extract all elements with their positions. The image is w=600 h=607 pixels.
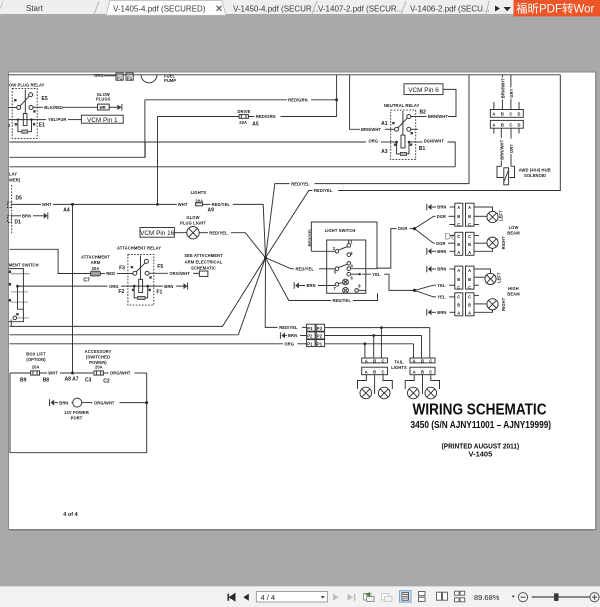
toolbar prev page button [243, 594, 249, 601]
svg-text:C: C [468, 285, 471, 290]
svg-text:(OPTION): (OPTION) [26, 357, 46, 362]
svg-text:RED/GRN: RED/GRN [256, 114, 276, 119]
svg-text:SEE ATTACHMENT: SEE ATTACHMENT [184, 253, 223, 258]
svg-text:HIGH: HIGH [508, 286, 519, 291]
switch pin 2 circle [335, 250, 339, 254]
switch pin 3 circle [347, 253, 351, 257]
P connector col1 P3 [307, 324, 316, 331]
ORG long bus to P1 [10, 343, 284, 345]
lamp high beam left [485, 273, 496, 284]
RED/GRN horizontal to junction [145, 99, 287, 101]
svg-text:BRN: BRN [307, 283, 316, 288]
wire loop to pin 2 [311, 250, 335, 252]
P connector col2 P2 [316, 332, 324, 339]
wire relay NO to ORG/WHT ref box [149, 272, 168, 274]
lamp wire B [474, 303, 487, 305]
relay center post [140, 256, 142, 280]
neutral relay contact top [407, 115, 411, 119]
tail lamp left 2 [378, 387, 390, 399]
svg-text:DGN/WHT: DGN/WHT [424, 139, 445, 144]
svg-text:P3: P3 [307, 326, 313, 331]
svg-text:4 / 4: 4 / 4 [261, 593, 276, 602]
svg-text:C: C [468, 295, 471, 300]
wire P1 right [325, 343, 414, 345]
svg-text:4 of 4: 4 of 4 [63, 512, 78, 518]
tail lamp right 1 [408, 387, 420, 399]
relay contact top circle [144, 259, 148, 263]
switch internal vertical with junction dot [16, 285, 19, 288]
lamp low beam left [487, 211, 498, 222]
col1 C stub left [450, 224, 455, 226]
switch pin stub row 3 [11, 301, 28, 303]
switch lamp circle lower [343, 288, 349, 294]
wire ORG bus to neutral relay coil [10, 141, 367, 143]
svg-text:ORG: ORG [94, 73, 104, 78]
svg-text:BRN/WHT: BRN/WHT [361, 127, 381, 132]
relay pin square 87 [411, 132, 413, 134]
wire hook from bottom contact down to bus L1 [10, 320, 12, 327]
DRIVE fuse [239, 115, 248, 119]
svg-text:WHT: WHT [178, 202, 188, 207]
coil suppression loop [134, 286, 148, 298]
svg-text:BRN: BRN [437, 267, 446, 272]
svg-text:A4: A4 [63, 208, 70, 214]
svg-text:BOX LIFT: BOX LIFT [26, 352, 46, 357]
svg-text:C: C [457, 285, 460, 290]
VCM Pin 16 box [140, 228, 174, 238]
tab bar background [0, 0, 600, 15]
svg-text:D1: D1 [15, 220, 22, 226]
svg-text:C: C [381, 358, 384, 363]
svg-text:YEL: YEL [437, 295, 446, 300]
wire BRN with arrow (D1) [11, 215, 21, 217]
view mode: single page (selected) [400, 591, 412, 603]
svg-text:WHT: WHT [48, 371, 58, 376]
tail light connector right row2 [410, 367, 435, 375]
svg-text:LAY: LAY [9, 172, 17, 177]
svg-text:F2: F2 [118, 289, 124, 295]
cut connector at page edge lower [8, 216, 12, 223]
wire long bus L1 to junction [10, 258, 266, 327]
svg-text:P2: P2 [307, 334, 313, 339]
svg-text:SCHEMATIC: SCHEMATIC [191, 266, 216, 271]
svg-text:P1: P1 [127, 76, 133, 81]
wire to fan junction diagonal [231, 233, 266, 258]
wire to corner then down to fan junction [233, 204, 266, 257]
tail light connector right row1 [410, 358, 435, 363]
svg-text:F1: F1 [156, 290, 162, 296]
vertical BRN/WHT feed from top bus to neutral relay [350, 75, 360, 130]
wire fuse to RED/YEL [203, 203, 211, 205]
zoom in button [590, 593, 599, 602]
svg-text:V-1450-4.pdf (SECUR...: V-1450-4.pdf (SECUR... [233, 5, 318, 14]
svg-text:A9: A9 [208, 208, 215, 214]
connector P1 second (cut) [126, 73, 133, 80]
tab scroll arrows [495, 6, 500, 12]
DGR diagonal to low beam left B [415, 216, 436, 228]
wire long lower bus [10, 166, 456, 168]
svg-text:PLUG LIGHT: PLUG LIGHT [180, 220, 206, 225]
svg-text:GLOW: GLOW [186, 215, 199, 220]
svg-text:ORG: ORG [109, 284, 119, 289]
svg-text:LEFT: LEFT [498, 210, 503, 221]
relay arm [136, 263, 145, 272]
coil junction dots [133, 285, 136, 288]
relay center post [402, 111, 404, 135]
VCM Pin 1 box [81, 115, 123, 123]
arm 7 to lamps [339, 283, 343, 284]
stub from NO contact [411, 128, 418, 130]
svg-text:PLUGS: PLUGS [96, 97, 111, 102]
svg-text:RED/YEL: RED/YEL [308, 228, 313, 247]
ground arrow BRN to P2 [281, 333, 285, 339]
wire RED/YEL upper no.1: diagonal from junction, label, to vertical at 469 up to bus [266, 184, 290, 258]
left lamps staple C [383, 375, 392, 389]
svg-text:ORG/WHT: ORG/WHT [169, 271, 190, 276]
ground arrow BRN low-beam-right A [428, 248, 432, 254]
junction dot A4 [71, 203, 74, 206]
svg-text:P3: P3 [317, 326, 323, 331]
svg-text:BRN/WHT: BRN/WHT [428, 114, 448, 119]
svg-text:A: A [457, 205, 460, 210]
svg-text:DGR: DGR [436, 241, 445, 246]
P connector col2 P3 [316, 324, 324, 331]
svg-text:A5: A5 [252, 122, 259, 128]
svg-text:OW PLUG RELAY: OW PLUG RELAY [9, 83, 45, 88]
svg-text:PORT: PORT [71, 415, 83, 420]
tab: V-1405-4.pdf (SECURED) active [106, 1, 226, 16]
svg-text:A1: A1 [381, 121, 388, 127]
svg-text:V-1406-2.pdf (SECU...: V-1406-2.pdf (SECU... [410, 5, 490, 14]
switch pin 8 circle [355, 289, 359, 293]
relay pin 30 square [33, 123, 35, 125]
AWD wire B down [500, 128, 502, 138]
svg-text:LIGHTS: LIGHTS [191, 190, 207, 195]
svg-text:A: A [413, 369, 416, 374]
switch bottom contact stub [17, 317, 29, 319]
lamp wire C stub [474, 284, 479, 286]
svg-text:A: A [468, 311, 471, 316]
ground arrow BRN low-beam-left A [428, 204, 432, 210]
relay center post [24, 90, 26, 114]
tab close x [217, 6, 222, 11]
svg-text:A: A [365, 358, 368, 363]
solenoid plunger [504, 168, 509, 185]
switch pin 4 circle [347, 267, 351, 271]
arrow glow symbol D1 [44, 213, 48, 219]
svg-text:DGR: DGR [437, 214, 446, 219]
light switch feed loop top [311, 222, 377, 269]
P connector col2 P1 [316, 340, 324, 347]
wire stub to P1 connectors [104, 75, 116, 77]
12V power port circle [73, 398, 82, 407]
wire BRN to light switch pin 7 with ground arrow [295, 283, 299, 289]
relay contact circle top [29, 93, 33, 97]
arrow glow symbol attachment [184, 283, 188, 289]
svg-text:ORG: ORG [369, 139, 379, 144]
AWD stub D [518, 102, 520, 110]
switch lamp circle upper [343, 279, 349, 285]
white pdf page [9, 72, 597, 530]
svg-text:D: D [517, 122, 520, 127]
connector pair high beam left: col1 [455, 266, 463, 289]
svg-text:C7: C7 [83, 277, 90, 283]
svg-text:ARM: ARM [91, 260, 101, 265]
svg-text:YEL: YEL [437, 283, 446, 288]
relay switch arm [20, 96, 29, 106]
ground arrow BRN high-beam-left A [428, 266, 432, 272]
svg-text:RED/YEL: RED/YEL [333, 298, 352, 303]
junction dot DGR [413, 227, 416, 230]
wire WHT main feed line [11, 203, 41, 205]
svg-text:BRN: BRN [164, 284, 173, 289]
svg-text:DRIVE: DRIVE [238, 109, 251, 114]
svg-text:LEFT: LEFT [497, 272, 502, 283]
neutral relay contact common [395, 127, 399, 131]
12V port ground arrow [51, 400, 55, 406]
switch pin stub row 2 [11, 291, 28, 293]
svg-text:BRN: BRN [288, 333, 297, 338]
relay coil [23, 114, 27, 126]
suppression resistor [138, 296, 145, 299]
zoom out button [518, 593, 527, 602]
vertical RED/GRN from top bus through dot to drive fuse wire [336, 75, 338, 117]
svg-text:A: A [413, 358, 416, 363]
svg-text:BRN: BRN [437, 249, 446, 254]
relay pin square 30 [410, 144, 412, 146]
svg-text:BEAM: BEAM [507, 292, 520, 297]
AWD hub solenoid bracket [497, 166, 515, 177]
coil suppression loop [397, 142, 409, 154]
connector pair high beam right: col1 [455, 293, 463, 316]
svg-text:ORG: ORG [284, 342, 294, 347]
junction dot pin6 [359, 273, 361, 275]
wire to ORG/WHT [103, 372, 108, 374]
accessory fuse [94, 371, 104, 375]
svg-text:BRN: BRN [22, 213, 31, 218]
junction dot RED/GRN [335, 98, 338, 101]
connector pair low beam left: col1 [455, 203, 463, 226]
svg-text:A: A [457, 250, 460, 255]
AWD stub A [493, 102, 495, 110]
view mode: facing [437, 592, 448, 600]
svg-text:RIGHT: RIGHT [501, 297, 506, 311]
wire BLK/RED from relay to HR glow plug [33, 106, 43, 108]
neutral relay dashed box [391, 110, 416, 160]
svg-text:C: C [457, 222, 460, 227]
wire to relay common [385, 128, 395, 130]
switch arm 5-mid [339, 264, 348, 267]
svg-text:LOW: LOW [509, 225, 519, 230]
zoom slider thumb [554, 593, 559, 601]
junction dot YEL [413, 289, 416, 292]
glow plug arrow symbol [117, 105, 121, 110]
DGR diagonal to low beam right B [415, 229, 436, 244]
attachment switch box (cut at page edge) [9, 269, 24, 322]
junction dot on loop [145, 401, 148, 404]
AWD connector block 2 [490, 120, 523, 128]
pin 8 stub [358, 289, 365, 291]
cut connector at page edge upper [8, 202, 12, 208]
pin 6 wire to YEL [351, 273, 361, 275]
tail light connector left row1 [362, 358, 388, 363]
view mode: continuous [419, 592, 426, 602]
svg-text:GRY: GRY [509, 88, 514, 97]
svg-text:福昕PDF转Wor: 福昕PDF转Wor [516, 2, 595, 16]
svg-text:B: B [468, 303, 471, 308]
svg-text:BRN: BRN [59, 400, 68, 405]
box lift fuse [31, 371, 40, 375]
wire HR to glow plug symbol [109, 106, 117, 108]
svg-text:De: De [445, 232, 457, 242]
svg-text:LIGHTS: LIGHTS [391, 365, 407, 370]
svg-text:RED/YEL: RED/YEL [209, 230, 228, 235]
svg-text:PUMP: PUMP [164, 78, 176, 83]
pin 1 stub up [348, 240, 350, 244]
svg-text:V-1407-2.pdf (SECUR...: V-1407-2.pdf (SECUR... [318, 5, 403, 14]
svg-text:BRN/WHT: BRN/WHT [501, 78, 506, 98]
svg-text:A: A [468, 205, 471, 210]
light switch box [327, 240, 366, 293]
AWD stubs below block2 [493, 128, 495, 133]
svg-text:A: A [492, 122, 495, 127]
svg-text:3450 (S/N AJNY11001 – AJNY1999: 3450 (S/N AJNY11001 – AJNY19999) [411, 420, 552, 431]
svg-text:20A: 20A [92, 266, 100, 271]
relay contact circle NO [29, 106, 33, 110]
svg-text:E1: E1 [39, 123, 45, 129]
svg-text:WHT: WHT [42, 202, 52, 207]
connector pair low beam left: col2 [466, 203, 475, 226]
YEL diagonal to high beam right C [415, 290, 437, 297]
lamp high beam right [487, 299, 498, 310]
switch arm 2-1 [339, 247, 348, 251]
svg-text:A3: A3 [381, 149, 388, 155]
wire to DRIVE fuse [158, 116, 240, 118]
relay pin 85 square [15, 123, 17, 125]
switch pin 5 circle [335, 267, 339, 271]
svg-text:B9: B9 [20, 378, 27, 384]
svg-text:D5: D5 [16, 196, 23, 202]
svg-text:B1: B1 [419, 146, 426, 152]
attachment relay dashed box [128, 254, 154, 305]
svg-text:C: C [429, 369, 432, 374]
svg-text:WER): WER) [9, 177, 21, 182]
svg-text:YEL/PUR: YEL/PUR [48, 117, 66, 122]
wire P2 right [325, 335, 422, 337]
wire RED/YEL to light switch pin 5 [266, 258, 295, 269]
svg-text:V-1405-4.pdf (SECURED): V-1405-4.pdf (SECURED) [113, 5, 206, 14]
svg-text:RIGHT: RIGHT [501, 236, 506, 250]
svg-text:F3: F3 [119, 266, 125, 272]
relay pin 86 square [14, 99, 16, 101]
wire to VCM Pin 1 [68, 119, 81, 121]
vertical feed from drive fuse wire down to WHT line [157, 117, 159, 205]
svg-text:BRN: BRN [437, 205, 446, 210]
status bar [0, 587, 600, 607]
svg-text:TAIL: TAIL [394, 359, 404, 364]
svg-text:(SWITCHED: (SWITCHED [86, 354, 110, 359]
col1 C stub [450, 234, 455, 236]
AWD connector block 1 [490, 110, 523, 118]
lamp wire B [474, 242, 487, 244]
svg-text:A: A [457, 268, 460, 273]
svg-text:BEAM: BEAM [507, 230, 520, 235]
lamp wire C stub [474, 294, 479, 296]
svg-text:ACCESSORY: ACCESSORY [85, 349, 112, 354]
svg-text:RED/YEL: RED/YEL [212, 202, 231, 207]
svg-text:C: C [457, 295, 460, 300]
wire long bus L2 to junction [10, 258, 266, 335]
svg-text:VCM Pin 16: VCM Pin 16 [140, 230, 175, 237]
svg-text:B2: B2 [420, 110, 427, 116]
svg-text:B: B [501, 122, 504, 127]
lamp wire C stub [474, 234, 479, 236]
svg-text:B: B [468, 214, 471, 219]
svg-text:BLK/RED: BLK/RED [44, 105, 63, 110]
switch pin 6 circle [347, 272, 351, 276]
svg-text:RED: RED [106, 271, 115, 276]
svg-text:B: B [457, 242, 460, 247]
attachment arm fuse (filled) [90, 271, 100, 276]
right lamps staple C [431, 375, 440, 389]
tail light connector left row2 [362, 367, 388, 375]
wire lamp to RED/YEL [199, 232, 208, 234]
wire to WHT [40, 372, 48, 374]
lamp wire B [474, 215, 487, 217]
suppression resistor [400, 152, 406, 155]
svg-text:ATTACHMENT: ATTACHMENT [81, 254, 110, 259]
svg-text:WIRING SCHEMATIC: WIRING SCHEMATIC [413, 402, 547, 419]
svg-text:V-1405: V-1405 [469, 450, 493, 459]
YEL diagonal to high beam left C [415, 285, 437, 290]
svg-text:YEL: YEL [372, 272, 381, 277]
svg-text:C: C [429, 358, 432, 363]
wire to right side of loop [135, 372, 147, 374]
wire port to ORG/WHT [82, 402, 93, 404]
svg-text:DGR: DGR [398, 226, 407, 231]
svg-text:C: C [468, 222, 471, 227]
relay coil suppression loop [18, 120, 32, 132]
wire fuse to RED/GRN label [248, 116, 254, 118]
svg-text:A: A [468, 268, 471, 273]
toolbar last page button (disabled) [348, 594, 356, 601]
svg-text:LIGHT SWITCH: LIGHT SWITCH [325, 228, 356, 233]
zoom dropdown arrow [512, 596, 516, 598]
svg-text:B: B [421, 358, 424, 363]
lamp wire A elbow [474, 248, 493, 251]
svg-text:ORG/WHT: ORG/WHT [94, 400, 115, 405]
lamp low beam right [487, 237, 498, 248]
svg-text:A: A [365, 369, 368, 374]
lamp wire A elbow [474, 310, 493, 312]
svg-text:A: A [492, 112, 495, 117]
relay pin square 86 [392, 122, 394, 124]
relay pin square 85 [394, 144, 396, 146]
wire YEL to junction dot right [362, 274, 415, 290]
svg-text:RED/YEL: RED/YEL [314, 188, 333, 193]
svg-text:RED/YEL: RED/YEL [279, 325, 298, 330]
wire box to lamp [174, 232, 186, 234]
connector pair high beam right: col2 [466, 293, 475, 316]
wire DGN/WHT loop right-down-left [448, 142, 456, 167]
svg-text:B: B [457, 214, 460, 219]
ground arrow BRN high-beam-right A [428, 309, 432, 315]
svg-text:B: B [457, 277, 460, 282]
svg-text:BRN: BRN [437, 310, 446, 315]
switch pin squares at edge [9, 271, 12, 274]
wire DGN/WHT from coil [409, 141, 423, 143]
switch pin 7 circle [335, 283, 339, 287]
